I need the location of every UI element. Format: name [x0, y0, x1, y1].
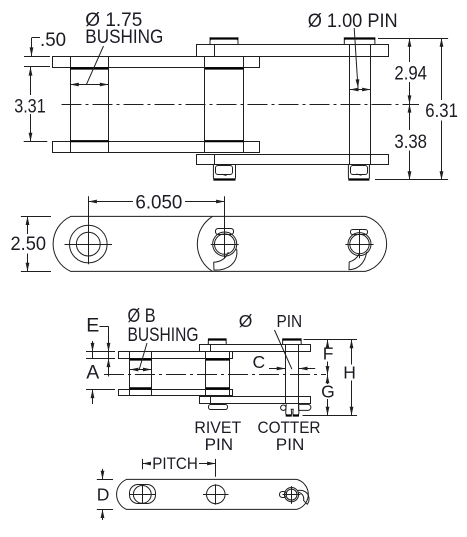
- dimension 2.94: [409, 38, 411, 62]
- svg-text:D: D: [97, 484, 110, 504]
- svg-text:6.31: 6.31: [425, 100, 458, 122]
- hole H3 circles: [348, 233, 371, 256]
- pin link end bend arc: [197, 216, 212, 271]
- centerline top view: [62, 104, 420, 106]
- svg-text:BUSHING: BUSHING: [85, 26, 163, 48]
- rivet pin cap small: [208, 340, 226, 345]
- svg-text:BUSHING: BUSHING: [128, 324, 199, 346]
- svg-text:PIN: PIN: [205, 436, 234, 454]
- bushing b2 small: [205, 352, 207, 396]
- bushing B2 bold edges: [205, 67, 244, 69]
- leader bushing: [87, 46, 104, 84]
- crosshair H1: [65, 244, 113, 246]
- bushing B1 verticals: [70, 56, 72, 152]
- dimension pin dia: [350, 89, 358, 91]
- cotter curl middle hole: [214, 249, 237, 270]
- extension lines right: [378, 38, 448, 40]
- dimension 3.31: [30, 67, 32, 95]
- crosshair H3: [345, 244, 373, 246]
- svg-text:6.050: 6.050: [135, 192, 182, 214]
- leader small bushing: [139, 343, 147, 370]
- cotter pin cap small: [283, 340, 302, 345]
- dimension 2.50: [21, 216, 51, 218]
- svg-text:A: A: [86, 362, 99, 384]
- pin link top plate small: [200, 345, 311, 352]
- svg-text:Ø: Ø: [239, 311, 253, 331]
- svg-text:Ø 1.00 PIN: Ø 1.00 PIN: [308, 10, 398, 32]
- dimension small bushing dia: [130, 369, 140, 371]
- middle pin retainer RT2: [213, 165, 235, 181]
- extension lines small left: [86, 351, 115, 353]
- cotter pin verticals small: [285, 344, 287, 404]
- cotter tab right hole: [351, 230, 368, 235]
- hole h2b: [207, 485, 226, 504]
- dimension 6.050: [88, 201, 133, 203]
- roller link top plate small: [119, 352, 233, 359]
- hole h1b: [133, 486, 151, 504]
- svg-text:C: C: [253, 352, 266, 372]
- cotter curl small plan: [298, 490, 310, 504]
- svg-text:2.50: 2.50: [11, 233, 47, 255]
- hole H2 circles: [213, 232, 237, 256]
- hole H1 circles: [70, 225, 108, 263]
- leader pin: [354, 28, 358, 88]
- svg-text:F: F: [323, 344, 334, 364]
- pin link bottom plate: [197, 155, 389, 165]
- roller link bottom plate small: [119, 390, 233, 396]
- cotter assembly bottom: eye pill: [299, 404, 311, 410]
- dimension 6.31: [441, 38, 443, 100]
- hole h3b pin: [286, 489, 297, 500]
- svg-text:2.94: 2.94: [394, 63, 427, 85]
- dimension 3.38: [409, 104, 411, 130]
- svg-text:PIN: PIN: [277, 311, 303, 331]
- svg-text:PIN: PIN: [276, 436, 305, 454]
- cotter legs: [286, 404, 299, 415]
- cotter eye pill small plan: [280, 492, 287, 498]
- bushing B1 bold edges: [70, 67, 108, 69]
- middle pin P2 hidden-in-plate edges: [214, 44, 216, 56]
- dimension bushing dia: [70, 84, 89, 86]
- cotter left lobe: [281, 405, 286, 410]
- crosshair H2: [211, 244, 239, 246]
- bushing flange pill: [130, 485, 156, 504]
- right pin P3 verticals: [349, 44, 351, 165]
- svg-text:G: G: [321, 381, 335, 401]
- pin link bottom plate small: [200, 397, 311, 404]
- rivet pin bottom end: [209, 405, 228, 410]
- svg-text:E: E: [86, 314, 99, 336]
- svg-text:3.38: 3.38: [394, 131, 427, 153]
- svg-text:PITCH: PITCH: [152, 455, 198, 473]
- dimension .50: [32, 37, 40, 39]
- svg-text:3.31: 3.31: [14, 95, 46, 117]
- link body small plan: [117, 479, 309, 509]
- middle pin cap C2: [210, 39, 238, 45]
- extension line left bottom: [24, 141, 48, 143]
- cotter curl right hole: [349, 252, 367, 270]
- bushing B2 verticals: [204, 56, 206, 152]
- right pin retainer RT3: [348, 165, 369, 181]
- roller link top plate: [53, 57, 260, 68]
- hole h3b cotter ring: [284, 488, 298, 502]
- pin link top plate: [197, 45, 389, 57]
- svg-text:H: H: [343, 363, 356, 383]
- bushing b1 small: [129, 352, 131, 396]
- extension lines small right: [304, 339, 358, 341]
- svg-text:.50: .50: [40, 29, 66, 51]
- link body plan: [53, 216, 386, 271]
- svg-text:COTTER: COTTER: [258, 419, 321, 437]
- svg-text:RIVET: RIVET: [194, 419, 241, 437]
- leader small pin: [275, 330, 292, 369]
- roller link bottom plate: [53, 142, 260, 153]
- extension lines left top: [24, 56, 50, 58]
- centerline small view: [104, 374, 326, 376]
- rivet pin edges in plates: [210, 345, 212, 352]
- right pin cap C3: [344, 38, 375, 44]
- cotter tab middle hole: [216, 229, 234, 235]
